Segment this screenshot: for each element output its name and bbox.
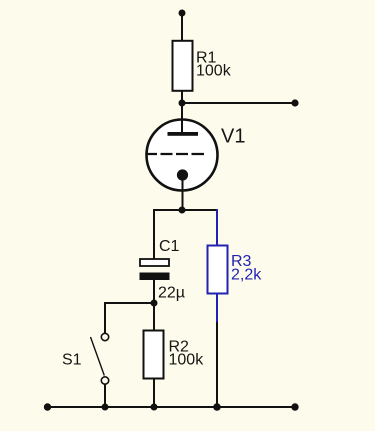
wire switch S1 to ground rail [104, 384, 106, 407]
resistor R2 [144, 331, 164, 379]
node B junction [151, 300, 158, 307]
tube V1 anode plate [168, 132, 199, 136]
tube V1 grid dashed [146, 153, 204, 155]
wire node B to switch S1 [105, 303, 154, 333]
node top supply terminal [179, 10, 186, 17]
wire R3 down blue [216, 294, 218, 322]
node rail R3 junction [213, 403, 221, 411]
svg-text:C1: C1 [159, 238, 180, 255]
node A anode junction [179, 100, 186, 107]
node right terminal [291, 99, 298, 106]
wire node A to right terminal [182, 102, 295, 104]
wire R1 to node A [181, 91, 183, 103]
wire C1 to node B [153, 280, 155, 303]
switch S1 terminal bottom [101, 377, 108, 384]
node rail right terminal [291, 403, 298, 410]
switch S1 terminal top [101, 333, 108, 340]
svg-text:S1: S1 [62, 352, 82, 369]
wire R2 to ground rail [153, 379, 155, 407]
wire cathode to node K [182, 175, 184, 210]
svg-text:2,2k: 2,2k [231, 267, 262, 284]
svg-text:100k: 100k [196, 63, 232, 80]
capacitor C1 plate plus [140, 259, 169, 266]
wire top terminal to R1 [181, 13, 183, 42]
node rail S1 junction [102, 404, 109, 411]
node K cathode junction [179, 207, 186, 214]
wire R3 to ground rail [216, 322, 218, 407]
svg-text:22µ: 22µ [158, 285, 185, 302]
resistor R1 [173, 41, 193, 91]
wire node K tee [154, 209, 217, 211]
svg-text:100k: 100k [169, 352, 205, 369]
wire node K to C1 [153, 209, 155, 259]
node rail left terminal [44, 403, 51, 410]
tube V1 cathode dot [177, 169, 188, 180]
wire node K to R3 blue [216, 209, 218, 245]
resistor R3 [208, 246, 228, 294]
ground rail wire [47, 406, 295, 408]
svg-text:V1: V1 [221, 125, 245, 147]
tube V1 envelope [147, 120, 218, 191]
capacitor C1 plate minus [140, 273, 170, 281]
switch S1 blade [91, 337, 105, 376]
wire node A to tube anode [181, 103, 183, 134]
node rail R2 junction [151, 404, 158, 411]
wire node B to R2 [153, 303, 155, 330]
